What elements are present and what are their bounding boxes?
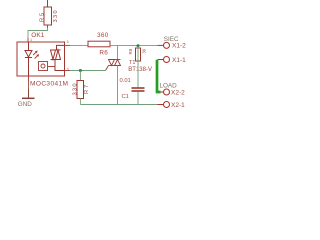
- svg-text:0.01: 0.01: [120, 78, 131, 84]
- wire R5 to OK1 pin1: [28, 28, 48, 38]
- OK1 led arrows: [33, 51, 39, 59]
- svg-text:C1: C1: [122, 94, 129, 100]
- svg-text:R5: R5: [40, 11, 46, 22]
- svg-text:LOAD: LOAD: [160, 82, 178, 89]
- wire thick bus X1-1 to X2-2: [157, 60, 161, 92]
- svg-text:X2-2: X2-2: [171, 89, 185, 96]
- OK1 internal LED: [25, 42, 32, 76]
- svg-text:360: 360: [97, 32, 109, 39]
- connector X2-2: [161, 91, 164, 93]
- svg-text:X2-1: X2-1: [171, 102, 185, 109]
- wire pin6 to R6: [70, 44, 88, 46]
- wire C1 to rail: [137, 92, 139, 105]
- wire supply stub: [47, 0, 49, 7]
- svg-text:R6: R6: [99, 50, 108, 57]
- op-coupler OK1 box: [17, 42, 65, 76]
- OK1 pin 1: [27, 38, 29, 42]
- svg-text:330: 330: [73, 82, 79, 95]
- OK1 internal triac: [51, 45, 65, 70]
- resistor R5: [44, 7, 52, 25]
- connector X2-1: [158, 104, 164, 106]
- svg-text:MOC3041M: MOC3041M: [30, 80, 68, 87]
- resistor R8 snubber: [136, 48, 141, 61]
- wire R7 to rail: [79, 99, 81, 105]
- svg-text:BT138-V: BT138-V: [128, 67, 152, 73]
- connector X1-1: [158, 59, 164, 61]
- wire pin4 to gate: [70, 70, 106, 72]
- OK1 pin 6: [65, 44, 71, 46]
- OK1 zero-cross box: [39, 62, 56, 71]
- svg-text:330: 330: [53, 9, 59, 22]
- resistor R7: [77, 81, 84, 99]
- svg-text:R8: R8: [128, 48, 133, 54]
- connector X1-2: [158, 44, 164, 46]
- ground: [22, 89, 35, 98]
- wire R8 to C1: [137, 46, 139, 87]
- svg-text:39: 39: [142, 48, 147, 53]
- triac T1: [106, 60, 121, 71]
- OK1 pin 4: [65, 70, 71, 72]
- wire R6 to X1-2: [110, 44, 158, 46]
- bottom rail wire: [80, 104, 157, 106]
- svg-text:OK1: OK1: [31, 32, 44, 39]
- svg-text:X1-1: X1-1: [172, 57, 186, 64]
- svg-text:T1: T1: [129, 60, 135, 66]
- svg-text:4: 4: [67, 67, 69, 71]
- svg-text:R7: R7: [84, 83, 90, 94]
- wire to R7: [79, 71, 81, 81]
- svg-text:X1-2: X1-2: [172, 43, 186, 50]
- wire pin2 to gnd: [28, 82, 30, 89]
- svg-text:1: 1: [30, 38, 32, 42]
- svg-text:GND: GND: [18, 101, 32, 108]
- wire MT1: [117, 66, 119, 105]
- OK1 pin 2: [28, 76, 30, 82]
- node gate junction: [79, 69, 82, 72]
- node snubber junction: [137, 44, 140, 47]
- svg-text:6: 6: [67, 40, 69, 44]
- capacitor C1: [132, 87, 145, 89]
- resistor R6: [88, 41, 110, 47]
- wire MT2 riser: [117, 45, 119, 59]
